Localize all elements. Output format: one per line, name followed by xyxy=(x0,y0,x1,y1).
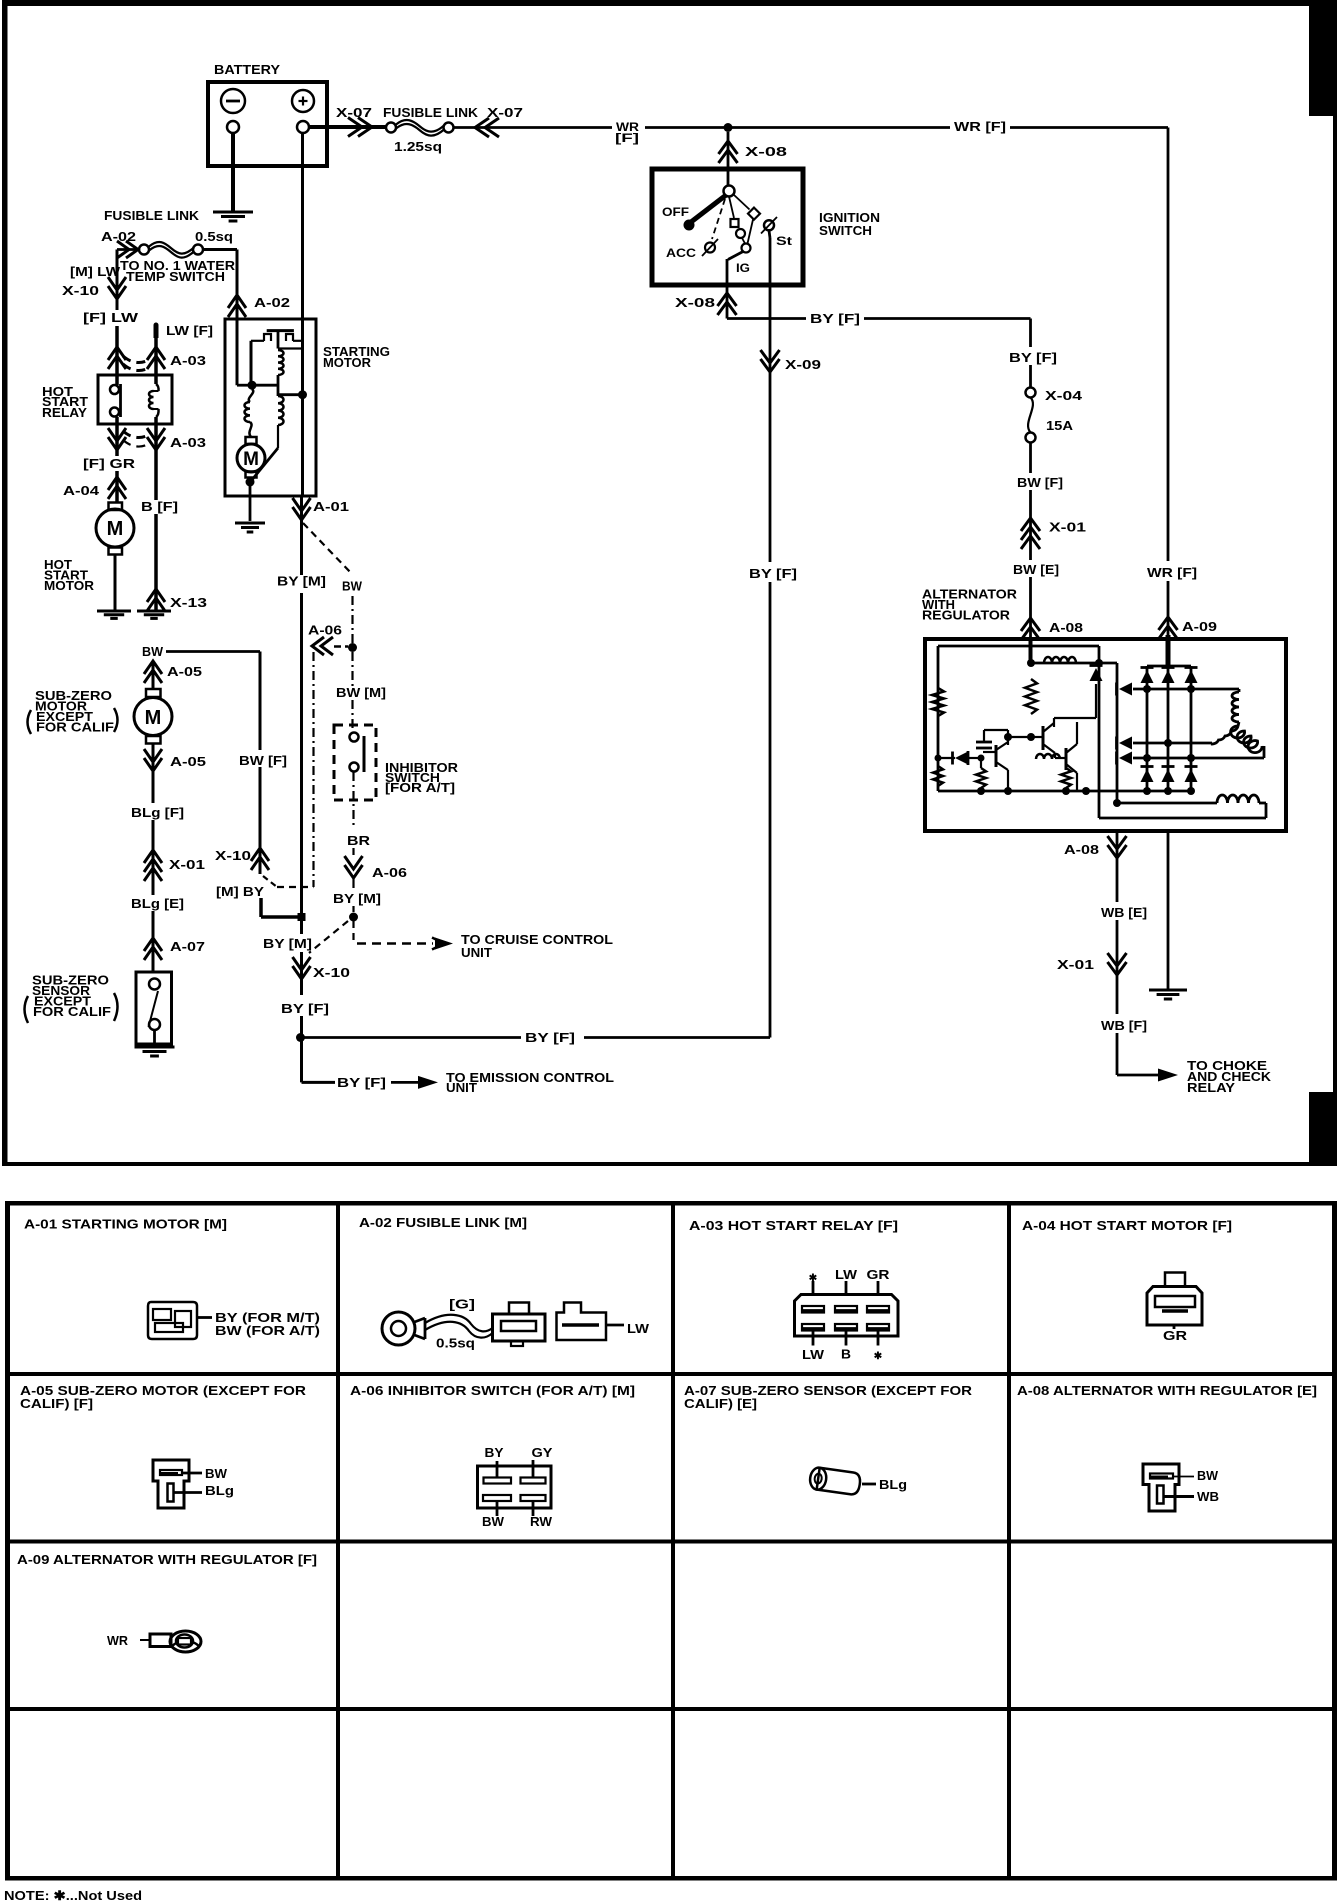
svg-text:X-13: X-13 xyxy=(170,595,207,610)
svg-text:GY: GY xyxy=(532,1445,553,1460)
svg-text:A-06 INHIBITOR SWITCH (FOR A/T: A-06 INHIBITOR SWITCH (FOR A/T) [M] xyxy=(350,1383,635,1398)
svg-text:ACC: ACC xyxy=(666,246,696,260)
svg-text:CALIF) [F]: CALIF) [F] xyxy=(20,1396,93,1411)
svg-text:BY: BY xyxy=(485,1445,504,1460)
svg-text:BW (FOR A/T): BW (FOR A/T) xyxy=(215,1323,320,1338)
svg-text:A-04: A-04 xyxy=(63,483,100,498)
svg-text:X-07: X-07 xyxy=(487,105,523,120)
svg-text:A-03: A-03 xyxy=(170,435,206,450)
svg-text:BW: BW xyxy=(342,579,363,594)
svg-text:TEMP SWITCH: TEMP SWITCH xyxy=(126,269,225,284)
svg-text:FOR CALIF: FOR CALIF xyxy=(33,1004,111,1019)
svg-text:LW: LW xyxy=(627,1321,650,1336)
svg-text:X-09: X-09 xyxy=(785,357,821,372)
svg-text:✱: ✱ xyxy=(809,1273,818,1284)
svg-text:BLg [F]: BLg [F] xyxy=(131,805,184,820)
svg-text:A-02 FUSIBLE LINK [M]: A-02 FUSIBLE LINK [M] xyxy=(359,1215,527,1230)
svg-text:BLg: BLg xyxy=(205,1483,234,1498)
svg-text:X-08: X-08 xyxy=(745,144,787,159)
svg-text:[F] LW: [F] LW xyxy=(83,310,139,325)
svg-text:A-04 HOT START MOTOR [F]: A-04 HOT START MOTOR [F] xyxy=(1022,1218,1232,1233)
svg-text:LW: LW xyxy=(835,1267,858,1282)
svg-text:BW [F]: BW [F] xyxy=(1017,475,1063,490)
svg-text:A-05: A-05 xyxy=(170,754,206,769)
svg-text:[FOR A/T]: [FOR A/T] xyxy=(385,780,455,795)
svg-text:MOTOR: MOTOR xyxy=(44,578,95,593)
svg-text:RELAY: RELAY xyxy=(1187,1080,1235,1095)
svg-text:X-08: X-08 xyxy=(675,295,715,310)
svg-text:A-03 HOT START RELAY [F]: A-03 HOT START RELAY [F] xyxy=(689,1218,898,1233)
svg-text:B [F]: B [F] xyxy=(141,499,178,514)
svg-text:UNIT: UNIT xyxy=(446,1080,477,1095)
svg-text:X-04: X-04 xyxy=(1045,388,1083,403)
svg-text:LW [F]: LW [F] xyxy=(166,323,213,338)
svg-text:✱: ✱ xyxy=(874,1351,883,1362)
svg-text:A-06: A-06 xyxy=(308,623,342,638)
svg-text:WB [E]: WB [E] xyxy=(1101,905,1147,920)
svg-text:A-07: A-07 xyxy=(170,939,205,954)
svg-text:[M] LW: [M] LW xyxy=(70,264,121,279)
svg-text:BW: BW xyxy=(142,644,164,659)
svg-text:WB [F]: WB [F] xyxy=(1101,1018,1147,1033)
svg-text:X-10: X-10 xyxy=(313,965,350,980)
svg-text:FUSIBLE LINK: FUSIBLE LINK xyxy=(383,105,479,120)
svg-text:A-08 ALTERNATOR WITH REGULATOR: A-08 ALTERNATOR WITH REGULATOR [E] xyxy=(1017,1383,1317,1398)
svg-text:IG: IG xyxy=(736,261,750,275)
svg-text:0.5sq: 0.5sq xyxy=(195,229,233,244)
svg-text:LW: LW xyxy=(802,1347,825,1362)
svg-text:X-01: X-01 xyxy=(1057,957,1094,972)
svg-text:A-01 STARTING MOTOR [M]: A-01 STARTING MOTOR [M] xyxy=(24,1217,227,1232)
svg-text:OFF: OFF xyxy=(662,205,689,219)
svg-text:BY [F]: BY [F] xyxy=(281,1001,329,1016)
svg-text:M: M xyxy=(107,518,124,540)
svg-text:A-09 ALTERNATOR WITH REGULATOR: A-09 ALTERNATOR WITH REGULATOR [F] xyxy=(17,1552,317,1567)
svg-text:BW [M]: BW [M] xyxy=(336,685,386,700)
svg-text:BY [M]: BY [M] xyxy=(333,891,381,906)
svg-text:BY [F]: BY [F] xyxy=(749,566,797,581)
svg-text:BY [F]: BY [F] xyxy=(1009,350,1057,365)
svg-text:BW: BW xyxy=(205,1466,228,1481)
svg-text:X-07: X-07 xyxy=(336,105,372,120)
svg-text:REGULATOR: REGULATOR xyxy=(922,608,1011,623)
svg-text:WR [F]: WR [F] xyxy=(1147,565,1197,580)
svg-text:BW [F]: BW [F] xyxy=(239,753,287,768)
svg-text:NOTE: ✱...Not Used: NOTE: ✱...Not Used xyxy=(4,1888,142,1902)
svg-text:A-03: A-03 xyxy=(170,353,206,368)
svg-text:X-01: X-01 xyxy=(1049,520,1086,535)
svg-text:BR: BR xyxy=(347,833,371,848)
svg-text:[F]: [F] xyxy=(615,131,639,145)
svg-text:GR: GR xyxy=(1163,1328,1188,1343)
svg-text:CALIF) [E]: CALIF) [E] xyxy=(684,1396,757,1411)
svg-text:[G]: [G] xyxy=(449,1297,475,1312)
svg-text:A-02: A-02 xyxy=(254,295,290,310)
svg-text:M: M xyxy=(145,707,162,729)
svg-text:GR: GR xyxy=(867,1267,891,1282)
svg-text:WR [F]: WR [F] xyxy=(954,119,1006,134)
svg-text:A-06: A-06 xyxy=(372,865,407,880)
svg-text:BY [M]: BY [M] xyxy=(263,936,312,951)
svg-text:15A: 15A xyxy=(1046,418,1074,433)
svg-text:FUSIBLE LINK: FUSIBLE LINK xyxy=(104,208,200,223)
svg-text:B: B xyxy=(841,1347,851,1362)
svg-text:WR: WR xyxy=(107,1633,129,1648)
svg-text:St: St xyxy=(776,234,792,248)
svg-text:A-05: A-05 xyxy=(167,664,202,679)
svg-text:M: M xyxy=(243,449,259,470)
svg-text:A-09: A-09 xyxy=(1182,619,1217,634)
svg-text:BY [F]: BY [F] xyxy=(337,1075,386,1090)
svg-text:BW: BW xyxy=(1197,1468,1219,1483)
svg-text:BW [E]: BW [E] xyxy=(1013,562,1059,577)
svg-text:0.5sq: 0.5sq xyxy=(436,1336,475,1351)
svg-text:RW: RW xyxy=(530,1514,553,1529)
svg-text:X-10: X-10 xyxy=(215,848,251,863)
svg-text:X-10: X-10 xyxy=(62,283,99,298)
svg-text:WB: WB xyxy=(1197,1489,1219,1504)
svg-text:A-08: A-08 xyxy=(1049,620,1083,635)
svg-text:BLg: BLg xyxy=(879,1477,907,1492)
svg-text:[F] GR: [F] GR xyxy=(83,456,136,471)
svg-text:1.25sq: 1.25sq xyxy=(394,139,442,154)
svg-text:A-01: A-01 xyxy=(313,499,349,514)
svg-text:A-08: A-08 xyxy=(1064,842,1099,857)
svg-text:UNIT: UNIT xyxy=(461,945,492,960)
svg-text:RELAY: RELAY xyxy=(42,405,87,420)
svg-text:SWITCH: SWITCH xyxy=(819,223,872,238)
svg-text:BY [F]: BY [F] xyxy=(810,311,860,326)
svg-text:[M] BY: [M] BY xyxy=(216,884,264,899)
svg-text:MOTOR: MOTOR xyxy=(323,355,372,370)
svg-text:BY [F]: BY [F] xyxy=(525,1030,575,1045)
svg-text:FOR CALIF: FOR CALIF xyxy=(36,720,114,735)
svg-text:BLg [E]: BLg [E] xyxy=(131,896,184,911)
svg-text:BATTERY: BATTERY xyxy=(214,62,280,77)
svg-text:BW: BW xyxy=(482,1514,505,1529)
svg-text:BY [M]: BY [M] xyxy=(277,574,326,589)
svg-text:X-01: X-01 xyxy=(169,857,205,872)
